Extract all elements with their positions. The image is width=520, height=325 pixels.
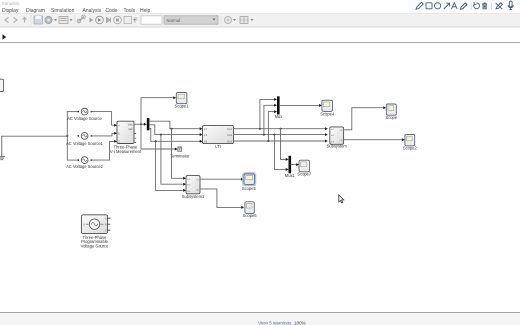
separator [470, 3, 472, 10]
svg-text:Normal: Normal [167, 18, 181, 23]
wire to V3 [67, 159, 78, 161]
mux M2 [285, 156, 296, 178]
scope block Scope [385, 104, 397, 120]
toolbar strip [0, 14, 520, 28]
gear [45, 16, 52, 23]
svg-text:Mux: Mux [275, 114, 283, 119]
wire subsystem Out2 to Scope2 [344, 138, 405, 141]
node Out1 riser up [259, 128, 261, 130]
wire neutral [2, 135, 68, 137]
wire subsystem Out1 to Scope [344, 106, 387, 130]
svg-text:V-I Measurement: V-I Measurement [110, 149, 142, 154]
svg-text:View 5 warnings: View 5 warnings [258, 321, 292, 325]
three-phase V-I measurement block [110, 121, 142, 154]
list icon [59, 17, 68, 24]
right icon 2 grid [240, 17, 248, 24]
svg-text:Simulink: Simulink [2, 1, 21, 7]
AC voltage source V3 [66, 157, 104, 169]
wire riser to mux in3 [268, 110, 277, 141]
svg-text:Out3: Out3 [227, 140, 233, 143]
svg-text:Help: Help [140, 8, 151, 14]
svg-text:100%: 100% [294, 321, 306, 325]
trash [482, 3, 487, 9]
annotation toolbar [408, 0, 520, 13]
svg-text:Subsystem1: Subsystem1 [182, 194, 205, 199]
wire LTI Out1 to subsystem In1 [234, 127, 328, 130]
microphone [508, 1, 513, 10]
node In1 branch [171, 128, 173, 130]
menu bar [2, 8, 151, 14]
node Vabc junction [140, 123, 142, 125]
svg-text:Subsystem: Subsystem [327, 143, 348, 148]
svg-text:Out2: Out2 [227, 134, 233, 137]
wire LTI Out3 to subsystem In3 [234, 140, 328, 143]
wire demux out1 to LTI In1 [149, 121, 202, 130]
link icon [79, 17, 85, 22]
svg-text:Tools: Tools [124, 8, 136, 14]
arrow [444, 3, 450, 9]
svg-text:Analysis: Analysis [83, 8, 102, 14]
three-phase programmable voltage source [81, 215, 110, 249]
nav arrows [5, 18, 27, 23]
mux M1 [275, 96, 283, 119]
marker [461, 3, 468, 10]
svg-text:Scope4: Scope4 [320, 111, 335, 116]
svg-text:Diagram: Diagram [26, 8, 45, 14]
wire to V1 [67, 111, 78, 113]
pencil [416, 2, 423, 9]
svg-text:Voltage Source: Voltage Source [81, 244, 109, 249]
svg-text:Terminator: Terminator [170, 153, 190, 158]
node In2 branch [160, 134, 162, 136]
wire branch to terminator [141, 124, 178, 150]
scope block Scope4 [320, 100, 335, 116]
node In3 branch [155, 140, 157, 142]
node Out2 riser up [263, 134, 265, 136]
wire subsystem1 Out1 to Scope5 [200, 178, 244, 181]
AC voltage source V1 [67, 108, 102, 121]
wire demux out3 to LTI In3 [149, 128, 202, 142]
terminator block [170, 147, 190, 158]
wire V3 to port C [92, 140, 117, 160]
undo [474, 2, 480, 9]
svg-text:Scope1: Scope1 [175, 104, 190, 109]
svg-text:Vabc: Vabc [128, 125, 134, 127]
svg-text:Mux1: Mux1 [285, 173, 296, 178]
LTI block U1 [203, 126, 234, 149]
scope block Scope2 [403, 135, 418, 151]
scope block Scope5 selected [242, 173, 257, 191]
wire riser to mux1 in2 [274, 135, 288, 171]
right icon 1 [225, 17, 232, 24]
svg-text:AC Voltage Source2: AC Voltage Source2 [66, 164, 104, 169]
node N bus junction [66, 135, 68, 137]
svg-text:Scope2: Scope2 [403, 145, 418, 150]
mouse cursor [339, 195, 344, 203]
letter A [452, 3, 458, 10]
demux D1 [147, 118, 150, 130]
mode combobox [164, 16, 218, 24]
wire LTI Out2 to subsystem In2 [234, 133, 328, 136]
circle [435, 3, 441, 9]
node riser down to mux1 in2 [273, 134, 275, 136]
wire branch to Scope1 [141, 96, 176, 124]
wire branch to subsystem1 In2 [161, 135, 186, 186]
subsystem U2 [327, 127, 348, 148]
wire subsystem1 Out2 to Scope6 [200, 189, 244, 209]
svg-text:LTI: LTI [215, 144, 221, 149]
wire mux1 to Scope7 [291, 163, 299, 166]
wire riser to mux in1 [260, 98, 277, 129]
separator [491, 3, 493, 10]
svg-text:Out1: Out1 [227, 128, 233, 131]
ground [0, 136, 5, 160]
svg-text:Display: Display [2, 8, 19, 14]
svg-text:Simulation: Simulation [51, 8, 75, 14]
svg-text:AC Voltage Source1: AC Voltage Source1 [66, 141, 104, 146]
subsystem U3 [182, 176, 205, 199]
sim control icons [90, 18, 94, 23]
partial block at left edge [0, 79, 4, 91]
svg-text:AC Voltage Source: AC Voltage Source [67, 116, 102, 121]
wire branch to subsystem1 In3 [156, 141, 186, 192]
wire demux out2 to LTI In2 [149, 125, 202, 136]
square [426, 3, 432, 9]
breadcrumb bar [0, 28, 520, 43]
wire V2 to port B [92, 132, 117, 136]
time field [134, 18, 138, 22]
wire riser to mux in2 [264, 104, 277, 135]
wire Vabc to demux [134, 123, 147, 126]
wire branch to subsystem1 In1 [172, 129, 187, 180]
scope block Scope1 [175, 93, 190, 109]
pace box [124, 17, 132, 24]
wire V1 to port A [92, 112, 117, 127]
node riser down to mux1 in1 [280, 128, 282, 130]
pencil-off [496, 3, 503, 9]
wire mux to Scope4 [280, 104, 322, 107]
scope block Scope7 [297, 160, 312, 176]
svg-text:Scope5: Scope5 [242, 186, 257, 191]
svg-text:Code: Code [106, 8, 118, 14]
wire riser to mux1 in1 [281, 129, 289, 161]
save icon [34, 16, 43, 24]
status bar [0, 312, 520, 314]
node Out3 riser up [267, 140, 269, 142]
AC voltage source V2 [66, 133, 104, 146]
svg-text:Scope: Scope [385, 115, 397, 120]
scope block Scope6 [243, 202, 258, 218]
wire left bus [66, 112, 68, 161]
svg-text:Scope6: Scope6 [243, 213, 258, 218]
svg-text:Scope7: Scope7 [297, 172, 312, 177]
